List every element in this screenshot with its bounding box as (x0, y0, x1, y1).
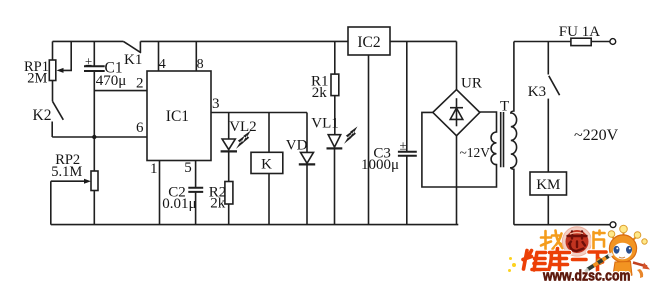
svg-text:~12V: ~12V (460, 145, 491, 160)
svg-text:KM: KM (536, 177, 560, 193)
svg-text:VL1: VL1 (311, 115, 339, 131)
svg-text:1: 1 (150, 161, 158, 177)
svg-text:5: 5 (184, 160, 192, 176)
svg-text:2k: 2k (312, 85, 328, 101)
svg-text:2k: 2k (210, 195, 226, 211)
svg-text:FU 1A: FU 1A (559, 24, 600, 40)
svg-text:~220V: ~220V (574, 127, 619, 144)
svg-text:470μ: 470μ (96, 73, 127, 89)
svg-text:8: 8 (197, 57, 204, 72)
svg-text:K3: K3 (528, 84, 546, 100)
svg-text:6: 6 (136, 120, 144, 136)
svg-text:IC2: IC2 (357, 34, 380, 51)
svg-text:4: 4 (159, 57, 166, 72)
svg-text:±: ± (85, 54, 92, 69)
svg-text:K1: K1 (124, 52, 142, 68)
svg-text:K: K (261, 157, 272, 173)
svg-text:2: 2 (136, 76, 144, 92)
svg-text:2M: 2M (27, 70, 47, 86)
svg-text:UR: UR (461, 76, 482, 92)
svg-text:T: T (500, 99, 509, 115)
svg-text:K2: K2 (33, 107, 52, 124)
svg-text:IC1: IC1 (166, 108, 189, 125)
svg-text:3: 3 (212, 96, 220, 112)
svg-text:1000μ: 1000μ (361, 157, 399, 173)
svg-text:VD: VD (286, 138, 308, 154)
svg-text:VL2: VL2 (229, 119, 257, 135)
svg-text:±: ± (400, 137, 407, 152)
svg-text:0.01μ: 0.01μ (162, 196, 196, 212)
svg-text:5.1M: 5.1M (51, 164, 82, 180)
